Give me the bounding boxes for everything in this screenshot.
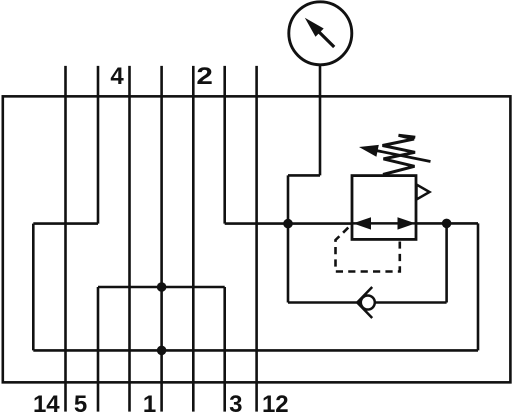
wire port 12 line x=256.6 <box>255 66 258 412</box>
regulator spring <box>383 135 416 174</box>
wire line x=193.3 <box>192 66 195 412</box>
regulator valve U1 body <box>352 176 416 240</box>
wire port 3 line x=224.7 bottom segment <box>223 287 226 412</box>
wire left riser x=33.3 <box>32 224 35 351</box>
regulator left arrowhead <box>353 217 371 229</box>
wire bypass right drop x=446.6 <box>445 223 448 302</box>
node junction on y=350 line <box>157 346 167 356</box>
adjustment arrowhead <box>359 145 379 157</box>
node junction at gauge tap <box>283 219 293 229</box>
wire port 2 line x=224.7 top segment <box>223 66 226 224</box>
wire gauge stem x=320 <box>319 65 322 176</box>
pressure gauge <box>289 2 352 65</box>
svg-text:1: 1 <box>143 391 156 415</box>
wire gauge jog y=175.4 <box>288 174 320 177</box>
pilot dashed line <box>336 224 400 272</box>
node junction right of valve <box>442 219 452 229</box>
wire port 1 line x=161.6 <box>160 66 163 412</box>
regulator flow line <box>352 222 416 225</box>
wire port 4/5 line x=98 top segment <box>97 66 100 224</box>
wire port 14 line x=65.5 <box>64 66 67 412</box>
regulator relief triangle <box>417 185 430 200</box>
wire right riser x=478 <box>477 223 480 350</box>
wire regulated line y=223.5 left of valve <box>225 222 352 225</box>
wire port 5 line x=98 bottom segment <box>97 287 100 412</box>
wire left step horizontal y=223.6 <box>33 222 98 225</box>
wire bypass bottom y=302.5 <box>288 301 447 304</box>
svg-text:3: 3 <box>229 391 242 415</box>
svg-text:4: 4 <box>110 63 124 90</box>
enclosure frame <box>3 96 511 382</box>
wire horizontal y=287 <box>98 286 225 289</box>
check valve seat <box>357 287 372 318</box>
svg-text:2: 2 <box>196 63 213 90</box>
regulator right arrowhead <box>398 217 416 229</box>
wire regulated line y=223.4 right of valve <box>416 222 478 225</box>
svg-text:5: 5 <box>74 391 87 415</box>
adjustment arrow shaft <box>376 151 431 162</box>
wire port 4 line x=129.5 <box>128 66 131 412</box>
svg-text:12: 12 <box>262 391 289 415</box>
check valve circle <box>361 296 375 310</box>
node junction on y=287 line <box>157 282 167 292</box>
svg-text:14: 14 <box>33 391 60 415</box>
wire gauge drop x=288 <box>287 175 290 302</box>
wire long horizontal y=350.4 <box>33 349 478 352</box>
